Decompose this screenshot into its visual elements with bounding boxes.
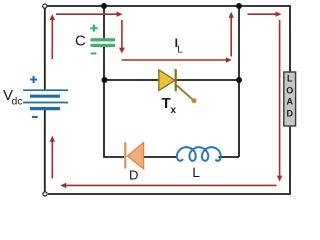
svg-text:D: D	[129, 167, 138, 182]
svg-text:T: T	[162, 95, 171, 112]
svg-text:D: D	[286, 108, 293, 118]
svg-text:O: O	[286, 86, 293, 96]
svg-text:L: L	[177, 45, 183, 56]
svg-text:dc: dc	[12, 96, 23, 108]
svg-text:L: L	[287, 74, 293, 84]
svg-text:L: L	[192, 164, 200, 180]
svg-text:C: C	[75, 33, 86, 50]
svg-text:x: x	[171, 105, 177, 116]
svg-text:A: A	[286, 97, 293, 107]
